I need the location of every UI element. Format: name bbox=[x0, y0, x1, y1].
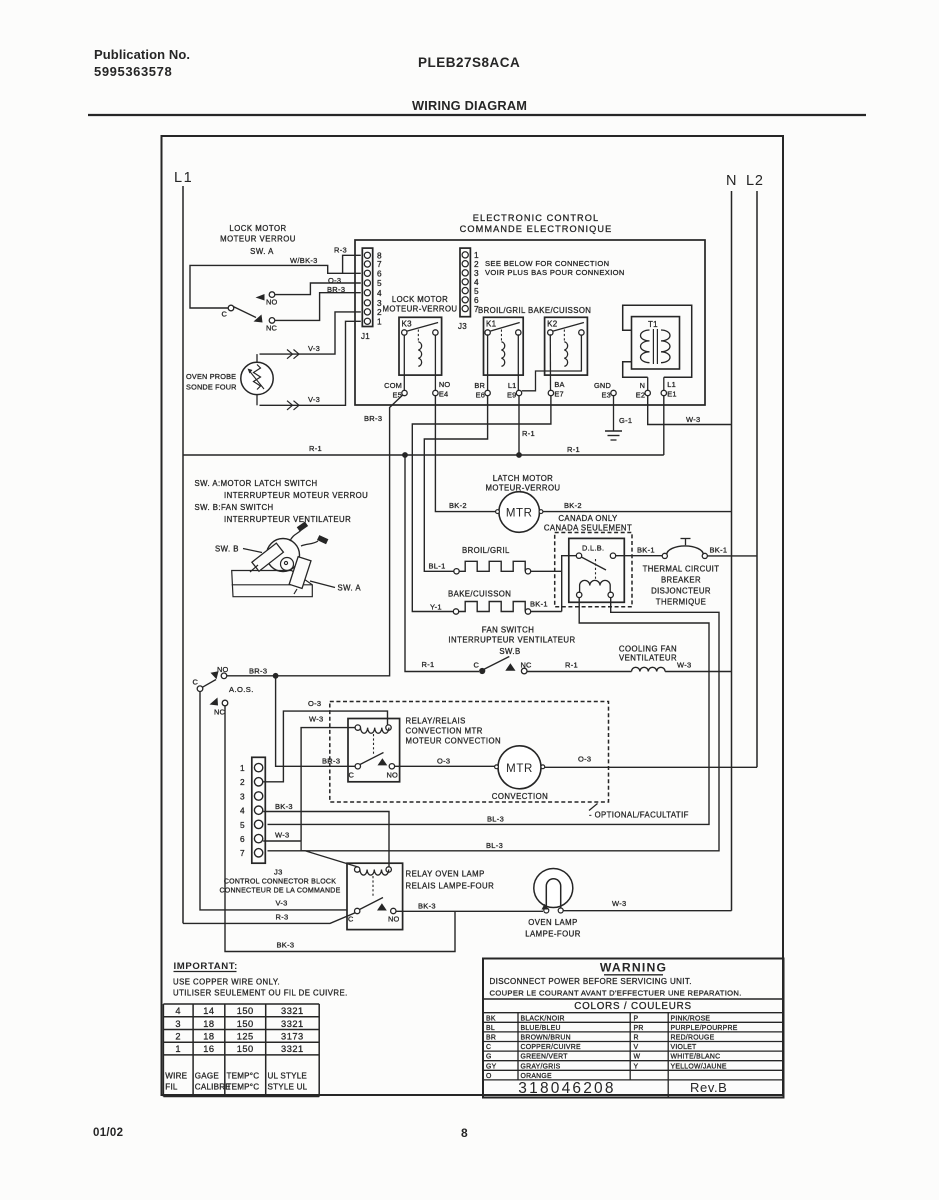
inductor cooling fan bbox=[632, 667, 666, 671]
wire W-3 coil left to J3 pin6 vertical bbox=[301, 728, 355, 841]
svg-text:01/02: 01/02 bbox=[93, 1127, 123, 1139]
svg-text:BK-3: BK-3 bbox=[418, 902, 436, 911]
svg-text:E7: E7 bbox=[554, 390, 563, 399]
svg-text:YELLOW/JAUNE: YELLOW/JAUNE bbox=[671, 1063, 727, 1070]
svg-text:BR: BR bbox=[474, 381, 485, 390]
svg-text:L1: L1 bbox=[174, 170, 193, 186]
wire breaker to L2 bbox=[707, 555, 757, 557]
svg-text:INTERRUPTEUR MOTEUR VERROU: INTERRUPTEUR MOTEUR VERROU bbox=[224, 491, 368, 500]
svg-text:18: 18 bbox=[203, 1032, 214, 1042]
svg-text:V-3: V-3 bbox=[308, 395, 320, 404]
svg-text:R-1: R-1 bbox=[422, 660, 435, 669]
svg-text:CONNECTEUR DE LA COMMANDE: CONNECTEUR DE LA COMMANDE bbox=[220, 888, 341, 895]
svg-text:W-3: W-3 bbox=[275, 831, 290, 840]
svg-text:L1: L1 bbox=[667, 380, 676, 389]
svg-text:GREEN/VERT: GREEN/VERT bbox=[521, 1054, 569, 1061]
oven lamp bbox=[534, 869, 573, 914]
svg-text:E9: E9 bbox=[507, 391, 516, 400]
svg-text:VENTILATEUR: VENTILATEUR bbox=[619, 654, 677, 663]
svg-text:W-3: W-3 bbox=[677, 661, 692, 670]
svg-text:C: C bbox=[473, 661, 479, 670]
svg-text:BROWN/BRUN: BROWN/BRUN bbox=[521, 1035, 571, 1042]
svg-text:WARNING: WARNING bbox=[600, 961, 667, 975]
svg-text:W-3: W-3 bbox=[309, 715, 324, 724]
svg-text:E5: E5 bbox=[393, 391, 402, 400]
wire L2 vertical bbox=[756, 191, 758, 767]
svg-text:5: 5 bbox=[377, 278, 382, 288]
svg-text:O: O bbox=[486, 1073, 492, 1080]
oven probe RT1 bbox=[241, 354, 273, 405]
svg-text:W/BK-3: W/BK-3 bbox=[290, 256, 318, 265]
svg-text:BR-3: BR-3 bbox=[249, 667, 267, 676]
wire E9 down to R-1 bus bbox=[518, 396, 520, 455]
svg-text:ELECTRONIC CONTROL: ELECTRONIC CONTROL bbox=[473, 213, 600, 223]
svg-text:COM: COM bbox=[384, 381, 402, 390]
svg-text:6: 6 bbox=[377, 269, 382, 279]
junction BR-3 bbox=[273, 673, 279, 679]
wire relay NO to convection motor bbox=[395, 765, 496, 767]
svg-text:3: 3 bbox=[175, 1019, 181, 1029]
svg-text:E2: E2 bbox=[636, 391, 645, 400]
label lock motor moteur-verrou (K3) bbox=[383, 295, 458, 314]
svg-text:N: N bbox=[726, 173, 737, 189]
wire latch motor to N bbox=[543, 511, 732, 513]
terminal E6 (BR) bbox=[474, 381, 490, 399]
svg-text:TEMP°C: TEMP°C bbox=[227, 1072, 260, 1081]
svg-text:RELAIS LAMPE-FOUR: RELAIS LAMPE-FOUR bbox=[406, 882, 495, 891]
heating element bake bbox=[453, 602, 530, 615]
svg-text:RELAY/RELAIS: RELAY/RELAIS bbox=[406, 717, 466, 726]
svg-text:V: V bbox=[634, 1044, 639, 1051]
svg-text:R-1: R-1 bbox=[309, 444, 322, 453]
svg-text:C: C bbox=[348, 771, 354, 780]
svg-text:BLUE/BLEU: BLUE/BLEU bbox=[521, 1025, 561, 1032]
relay K3 bbox=[399, 317, 442, 375]
svg-text:BK-2: BK-2 bbox=[564, 501, 582, 510]
svg-text:FIL: FIL bbox=[165, 1083, 178, 1092]
relay D.L.B. bbox=[569, 538, 625, 602]
connector J1 bbox=[361, 248, 373, 341]
canada only dashed box bbox=[555, 533, 632, 607]
wire K3 NO to E4 bbox=[434, 335, 436, 390]
svg-text:OVEN LAMP: OVEN LAMP bbox=[528, 918, 578, 927]
relay K1 bbox=[484, 317, 524, 375]
label J3 control connector block bbox=[220, 868, 341, 895]
label oven lamp bbox=[525, 918, 581, 939]
wire oven lamp to N bbox=[563, 910, 731, 912]
connector chevrons on V-3 wire lower bbox=[287, 401, 299, 410]
svg-text:COLORS / COULEURS: COLORS / COULEURS bbox=[574, 1001, 692, 1012]
svg-text:BAKE/CUISSON: BAKE/CUISSON bbox=[448, 590, 511, 599]
svg-text:SW. B:FAN SWITCH: SW. B:FAN SWITCH bbox=[195, 503, 274, 512]
note SW.A SW.B definitions bbox=[195, 479, 369, 524]
svg-text:INTERRUPTEUR VENTILATEUR: INTERRUPTEUR VENTILATEUR bbox=[224, 515, 351, 524]
note IMPORTANT use copper wire bbox=[173, 961, 348, 998]
svg-text:IMPORTANT:: IMPORTANT: bbox=[174, 961, 238, 972]
label latch motor bbox=[486, 474, 561, 493]
svg-text:ORANGE: ORANGE bbox=[521, 1073, 553, 1080]
svg-text:SEE BELOW FOR CONNECTION: SEE BELOW FOR CONNECTION bbox=[485, 259, 609, 268]
svg-text:Rev.B: Rev.B bbox=[690, 1080, 727, 1095]
svg-text:COOLING FAN: COOLING FAN bbox=[619, 645, 677, 654]
wire broil to D.L.B. contact bbox=[531, 570, 562, 572]
svg-text:BR-3: BR-3 bbox=[364, 414, 382, 423]
wire lamp relay NO to oven lamp bbox=[396, 910, 543, 912]
wire E4 to latch motor bbox=[435, 396, 496, 512]
svg-text:FAN SWITCH: FAN SWITCH bbox=[482, 626, 535, 635]
svg-text:W-3: W-3 bbox=[612, 899, 627, 908]
wire SW.A NC to J1 pin 4 bbox=[275, 293, 361, 321]
svg-text:BK-1: BK-1 bbox=[710, 546, 728, 555]
wire E7 to bake element bbox=[412, 396, 551, 612]
svg-text:1: 1 bbox=[175, 1044, 181, 1054]
svg-text:CONTROL CONNECTOR BLOCK: CONTROL CONNECTOR BLOCK bbox=[224, 879, 336, 886]
svg-text:BR: BR bbox=[486, 1035, 496, 1042]
svg-text:NO: NO bbox=[217, 665, 229, 674]
svg-text:4: 4 bbox=[377, 288, 382, 298]
svg-text:Publication No.: Publication No. bbox=[94, 47, 190, 62]
junction R-1 fan branch bbox=[402, 452, 408, 458]
svg-text:150: 150 bbox=[237, 1006, 254, 1016]
wire E5 BR-3 down-left bbox=[227, 395, 403, 676]
wire E6 to broil element bbox=[424, 396, 487, 572]
svg-text:E3: E3 bbox=[602, 391, 611, 400]
J3 bottom pin numbers 1-7 bbox=[240, 763, 245, 858]
svg-text:3: 3 bbox=[240, 791, 245, 801]
svg-text:GND: GND bbox=[594, 381, 611, 390]
svg-text:NC: NC bbox=[214, 708, 226, 717]
wire R-1 bus bbox=[183, 454, 664, 456]
svg-text:R-1: R-1 bbox=[522, 429, 535, 438]
svg-text:3321: 3321 bbox=[281, 1019, 304, 1029]
svg-text:V-3: V-3 bbox=[276, 899, 288, 908]
svg-text:3173: 3173 bbox=[281, 1032, 304, 1042]
wire R-1 branch to fan switch bbox=[405, 455, 479, 672]
svg-text:V-3: V-3 bbox=[308, 344, 320, 353]
svg-text:SW. A: SW. A bbox=[250, 247, 274, 256]
label relay convection bbox=[406, 717, 502, 746]
svg-text:BK-3: BK-3 bbox=[277, 941, 295, 950]
svg-text:R-3: R-3 bbox=[276, 913, 289, 922]
svg-text:COMMANDE ELECTRONIQUE: COMMANDE ELECTRONIQUE bbox=[460, 224, 613, 234]
motor MTR convection bbox=[495, 746, 545, 789]
svg-text:TEMP°C: TEMP°C bbox=[227, 1083, 260, 1092]
note see below for connection bbox=[485, 259, 625, 277]
wire T1 to E2 bbox=[647, 377, 649, 390]
label fan switch SW.B bbox=[448, 626, 575, 657]
svg-text:Y: Y bbox=[634, 1063, 639, 1070]
optional dashed box bbox=[330, 702, 609, 803]
svg-text:150: 150 bbox=[237, 1019, 254, 1029]
svg-text:2: 2 bbox=[175, 1032, 181, 1042]
svg-text:UL STYLE: UL STYLE bbox=[268, 1072, 308, 1081]
svg-text:LAMPE-FOUR: LAMPE-FOUR bbox=[525, 930, 581, 939]
label SW. B pointer bbox=[215, 545, 262, 554]
svg-text:MOTEUR-VERROU: MOTEUR-VERROU bbox=[383, 305, 458, 314]
svg-text:E4: E4 bbox=[439, 390, 448, 399]
warning box bbox=[483, 959, 784, 1098]
svg-text:RELAY OVEN LAMP: RELAY OVEN LAMP bbox=[406, 870, 485, 879]
svg-text:K2: K2 bbox=[547, 320, 558, 329]
switch SW.A bbox=[221, 292, 277, 333]
svg-text:1: 1 bbox=[240, 763, 245, 773]
wire N vertical bbox=[731, 191, 733, 911]
svg-text:T1: T1 bbox=[648, 320, 658, 329]
connector chevrons on V-3 wire upper bbox=[287, 350, 299, 359]
svg-text:P: P bbox=[634, 1015, 639, 1022]
svg-text:THERMIQUE: THERMIQUE bbox=[656, 598, 706, 607]
svg-text:E6: E6 bbox=[476, 391, 485, 400]
part number 318046208 bbox=[518, 1080, 727, 1097]
svg-text:NO: NO bbox=[439, 380, 451, 389]
svg-text:SW. A:MOTOR LATCH SWITCH: SW. A:MOTOR LATCH SWITCH bbox=[195, 479, 318, 488]
terminal E1 (L1) bbox=[661, 380, 677, 398]
svg-text:7: 7 bbox=[240, 848, 245, 858]
svg-text:STYLE UL: STYLE UL bbox=[268, 1083, 308, 1092]
svg-text:CONVECTION MTR: CONVECTION MTR bbox=[406, 727, 483, 736]
wire K2 left contact to E7 bbox=[549, 334, 551, 390]
terminal E7 (BA) bbox=[548, 380, 564, 398]
terminal E2 (N) bbox=[636, 381, 651, 399]
svg-text:VIOLET: VIOLET bbox=[671, 1044, 698, 1051]
wire D.L.B. common vertical bbox=[562, 556, 577, 612]
svg-text:BK-2: BK-2 bbox=[449, 501, 467, 510]
terminal E3 (GND) bbox=[594, 381, 616, 399]
svg-text:Y-1: Y-1 bbox=[430, 603, 442, 612]
svg-text:5995363578: 5995363578 bbox=[94, 64, 172, 79]
svg-text:C: C bbox=[221, 310, 227, 319]
wire gauge table bbox=[163, 1004, 319, 1097]
svg-text:3321: 3321 bbox=[281, 1044, 304, 1054]
svg-text:1: 1 bbox=[377, 317, 382, 327]
heating element broil bbox=[454, 561, 531, 574]
color code table bbox=[483, 1013, 784, 1098]
relay oven lamp bbox=[347, 863, 403, 929]
svg-text:O-3: O-3 bbox=[578, 755, 591, 764]
svg-text:R-1: R-1 bbox=[565, 661, 578, 670]
svg-text:INTERRUPTEUR VENTILATEUR: INTERRUPTEUR VENTILATEUR bbox=[448, 636, 575, 645]
svg-text:BREAKER: BREAKER bbox=[661, 576, 701, 585]
svg-text:CANADA SEULEMENT: CANADA SEULEMENT bbox=[544, 524, 632, 533]
relay K2 bbox=[545, 317, 588, 375]
label optional-facultatif bbox=[589, 804, 689, 820]
svg-text:COPPER/CUIVRE: COPPER/CUIVRE bbox=[521, 1044, 581, 1051]
page header: publication number bbox=[94, 47, 190, 79]
svg-text:- OPTIONAL/FACULTATIF: - OPTIONAL/FACULTATIF bbox=[589, 811, 689, 820]
svg-text:OVEN PROBE: OVEN PROBE bbox=[186, 372, 236, 381]
svg-text:BL-1: BL-1 bbox=[429, 562, 446, 571]
wire L1 to R-3 bbox=[183, 913, 356, 924]
svg-text:SONDE FOUR: SONDE FOUR bbox=[186, 383, 237, 392]
wire D.L.B. coil left to J3 pin5 (BL-3) bbox=[268, 598, 710, 825]
svg-text:L1: L1 bbox=[508, 381, 517, 390]
wire J3 pin4 to oven lamp relay coil right bbox=[263, 812, 389, 867]
connector J3 top bbox=[458, 248, 470, 331]
svg-text:PURPLE/POURPRE: PURPLE/POURPRE bbox=[671, 1025, 738, 1032]
wire D.L.B. to breaker bbox=[616, 555, 663, 557]
svg-text:W-3: W-3 bbox=[686, 415, 701, 424]
svg-text:R: R bbox=[634, 1035, 639, 1042]
svg-text:DISCONNECT POWER BEFORE SERVIC: DISCONNECT POWER BEFORE SERVICING UNIT. bbox=[490, 977, 692, 986]
svg-text:DISJONCTEUR: DISJONCTEUR bbox=[651, 587, 711, 596]
switch SW.B fan bbox=[473, 657, 532, 675]
svg-text:VOIR PLUS BAS POUR CONNEXION: VOIR PLUS BAS POUR CONNEXION bbox=[485, 268, 625, 277]
thermal circuit breaker bbox=[662, 539, 707, 559]
terminal E9 (L1) bbox=[507, 381, 522, 399]
transformer T1 bbox=[623, 305, 692, 377]
svg-text:R-3: R-3 bbox=[334, 246, 347, 255]
svg-text:J1: J1 bbox=[361, 332, 370, 341]
svg-text:LOCK MOTOR: LOCK MOTOR bbox=[229, 224, 286, 233]
svg-text:8: 8 bbox=[461, 1126, 468, 1140]
wire D.L.B. coil right to J3 pin7 (BL-3) bbox=[268, 598, 720, 851]
wire E1 down to R-1 bus bbox=[663, 396, 665, 455]
svg-text:PLEB27S8ACA: PLEB27S8ACA bbox=[418, 55, 520, 70]
svg-text:WIRING DIAGRAM: WIRING DIAGRAM bbox=[412, 98, 527, 113]
wire J1 pin 2 to oven probe top bbox=[260, 312, 361, 354]
svg-text:BK-3: BK-3 bbox=[275, 802, 293, 811]
wire K2 right contact jog to E9 bbox=[522, 335, 582, 391]
svg-text:NO: NO bbox=[388, 915, 400, 924]
svg-text:E1: E1 bbox=[667, 390, 676, 399]
svg-text:G: G bbox=[486, 1054, 492, 1061]
wire A.O.S. NC to BK-3 bottom bbox=[225, 706, 455, 952]
connector J3 control block bbox=[252, 757, 265, 863]
svg-text:BK-1: BK-1 bbox=[637, 546, 655, 555]
svg-text:C: C bbox=[486, 1044, 491, 1051]
electronic control box outline bbox=[355, 213, 705, 405]
svg-text:318046208: 318046208 bbox=[518, 1080, 615, 1097]
svg-text:GY: GY bbox=[486, 1063, 497, 1070]
svg-text:125: 125 bbox=[237, 1032, 254, 1042]
svg-text:O-3: O-3 bbox=[437, 757, 450, 766]
svg-text:J3: J3 bbox=[274, 868, 283, 877]
relay convection (RELAY/RELAIS CONVECTION MTR) bbox=[348, 719, 400, 782]
svg-text:A.O.S.: A.O.S. bbox=[229, 685, 254, 694]
svg-text:J3: J3 bbox=[458, 322, 467, 331]
svg-text:BR-3: BR-3 bbox=[322, 757, 340, 766]
svg-text:UTILISER SEULEMENT OU FIL DE C: UTILISER SEULEMENT OU FIL DE CUIVRE. bbox=[173, 989, 348, 998]
wire cooling fan to N bbox=[665, 671, 731, 673]
wire J3 pin6 stub bbox=[263, 840, 301, 842]
svg-text:BK-1: BK-1 bbox=[530, 600, 548, 609]
svg-text:SW. A: SW. A bbox=[338, 584, 362, 593]
wire T1 to E1 bbox=[663, 377, 665, 390]
svg-text:RED/ROUGE: RED/ROUGE bbox=[671, 1035, 715, 1042]
svg-text:COUPER LE COURANT AVANT D'EFFE: COUPER LE COURANT AVANT D'EFFECTUER UNE … bbox=[490, 989, 742, 998]
terminal E5 (COM) bbox=[384, 381, 407, 399]
svg-text:MTR: MTR bbox=[506, 763, 533, 775]
wire SW.A NO to J1 pin 5 bbox=[275, 283, 361, 295]
label SW. A pointer bbox=[310, 581, 361, 593]
svg-text:CANADA ONLY: CANADA ONLY bbox=[558, 514, 618, 523]
svg-text:LOCK MOTOR: LOCK MOTOR bbox=[392, 295, 448, 304]
svg-text:O-3: O-3 bbox=[308, 699, 321, 708]
svg-text:BROIL/GRIL BAKE/CUISSON: BROIL/GRIL BAKE/CUISSON bbox=[478, 306, 591, 315]
wire K1 right contact to E9 bbox=[517, 334, 519, 390]
wire fan switch to cooling fan bbox=[527, 671, 632, 673]
svg-text:NC: NC bbox=[521, 661, 533, 670]
terminal E4 (NO) bbox=[433, 380, 451, 398]
svg-text:D.L.B.: D.L.B. bbox=[582, 544, 604, 553]
svg-text:4: 4 bbox=[240, 806, 245, 816]
label lock motor SW.A bbox=[220, 224, 296, 256]
label relay oven lamp bbox=[406, 870, 495, 891]
svg-text:MOTEUR VERROU: MOTEUR VERROU bbox=[220, 235, 296, 244]
svg-text:14: 14 bbox=[203, 1006, 214, 1016]
label thermal circuit breaker bbox=[643, 565, 720, 607]
svg-text:G-1: G-1 bbox=[619, 416, 632, 425]
wire BR-3 junction to convection relay C bbox=[276, 676, 356, 767]
ground G-1 bbox=[605, 396, 622, 440]
J1 pin numbers 8-1 bbox=[377, 251, 382, 327]
svg-text:BL-3: BL-3 bbox=[486, 841, 503, 850]
svg-text:150: 150 bbox=[237, 1044, 254, 1054]
wire R-3 to J1 pin 8 bbox=[343, 255, 361, 273]
label canada only bbox=[544, 514, 632, 533]
junction E9 R-1 bbox=[516, 452, 522, 458]
wire J1 pin 1 to oven probe bottom bbox=[260, 321, 361, 405]
svg-text:GAGE: GAGE bbox=[195, 1072, 220, 1081]
wire K1 left contact to E6 bbox=[487, 334, 489, 390]
wire K3 COM to E5 bbox=[403, 335, 405, 390]
svg-text:WHITE/BLANC: WHITE/BLANC bbox=[671, 1054, 721, 1061]
svg-text:6: 6 bbox=[240, 834, 245, 844]
svg-text:NO: NO bbox=[266, 298, 278, 307]
svg-text:N: N bbox=[640, 381, 646, 390]
svg-text:GRAY/GRIS: GRAY/GRIS bbox=[521, 1063, 561, 1070]
motor MTR latch bbox=[496, 492, 543, 533]
svg-text:MTR: MTR bbox=[506, 508, 533, 520]
svg-text:CONVECTION: CONVECTION bbox=[492, 792, 548, 801]
svg-text:C: C bbox=[192, 678, 198, 687]
svg-text:SW. B: SW. B bbox=[215, 545, 239, 554]
wire convection motor to L2 bbox=[545, 766, 757, 768]
svg-text:3321: 3321 bbox=[281, 1006, 304, 1016]
svg-text:18: 18 bbox=[203, 1019, 214, 1029]
svg-text:BL-3: BL-3 bbox=[487, 815, 504, 824]
switch A.O.S. bbox=[192, 665, 228, 717]
svg-text:C: C bbox=[348, 915, 354, 924]
svg-text:W: W bbox=[634, 1054, 641, 1061]
svg-text:L2: L2 bbox=[746, 173, 764, 189]
wire J3 pin6 vertical to lamp relay coil left bbox=[301, 841, 357, 867]
page title WIRING DIAGRAM bbox=[88, 98, 866, 115]
svg-text:4: 4 bbox=[175, 1006, 181, 1016]
svg-text:K1: K1 bbox=[486, 320, 497, 329]
wire A.O.S. C to V-3 bbox=[200, 692, 347, 910]
svg-text:2: 2 bbox=[240, 777, 245, 787]
wire J3 pin2 O-3 to convection relay coil bbox=[263, 711, 387, 782]
svg-text:PINK/ROSE: PINK/ROSE bbox=[671, 1015, 711, 1022]
svg-text:5: 5 bbox=[240, 820, 245, 830]
wire E2 to N line bbox=[648, 396, 732, 425]
svg-text:BL: BL bbox=[486, 1025, 495, 1032]
wire bake to D.L.B. vertical bbox=[531, 611, 562, 613]
svg-text:R-1: R-1 bbox=[567, 445, 580, 454]
svg-text:BLACK/NOIR: BLACK/NOIR bbox=[521, 1015, 565, 1022]
svg-text:BA: BA bbox=[554, 380, 564, 389]
svg-text:SW.B: SW.B bbox=[499, 647, 520, 656]
svg-text:USE COPPER WIRE ONLY.: USE COPPER WIRE ONLY. bbox=[173, 978, 280, 987]
wire SW.A common to J1 pin 6 bbox=[190, 265, 361, 308]
pictorial latch and fan assembly bbox=[232, 521, 329, 596]
svg-text:NC: NC bbox=[266, 324, 278, 333]
svg-text:PR: PR bbox=[634, 1025, 644, 1032]
wire L1 vertical bbox=[182, 186, 184, 923]
svg-text:BK: BK bbox=[486, 1015, 496, 1022]
svg-text:K3: K3 bbox=[402, 320, 413, 329]
